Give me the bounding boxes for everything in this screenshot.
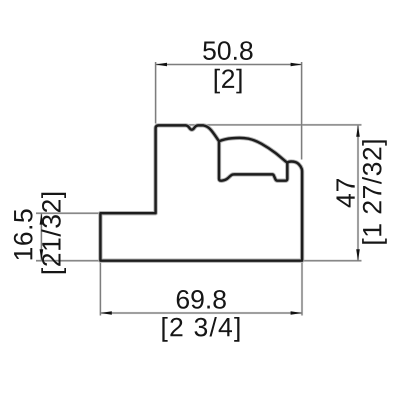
extension line: bottom dim right (301, 263, 303, 316)
dimension text: [2] (215, 69, 242, 94)
dimension text: 69.8 (177, 290, 226, 309)
arrowhead: right dim bottom (356, 249, 360, 260)
extension line: left dim bottom (36, 260, 100, 262)
arrowhead: right dim top (356, 125, 360, 136)
dimension line: 69.8 bottom (100, 312, 302, 314)
arrowhead: bottom dim left (100, 311, 111, 315)
arrowhead: top dim right (291, 63, 302, 67)
arrowhead: left dim bottom (40, 249, 44, 260)
soft halo under profile (100, 125, 302, 260)
extension line: top dim right (300, 62, 302, 160)
extension line: left dim bottom (36, 260, 100, 262)
dimension text: 50.8 (203, 41, 252, 60)
soft halo under thin lines (36, 62, 362, 316)
extension line: right dim bottom (304, 260, 362, 262)
dimension line: 47 right (357, 125, 359, 260)
extension line: bottom dim left (99, 263, 101, 316)
dimension text: [21/32] (rotated) (41, 193, 66, 274)
extension line: right dim top (156, 124, 362, 126)
extension line: right dim bottom (304, 260, 362, 262)
extension line: left dim top (36, 212, 100, 214)
extension line: right dim top (156, 124, 362, 126)
extension line: top dim left (154, 62, 156, 124)
extension line: bottom dim right (301, 263, 303, 316)
dimension line: 16.5 left (40, 213, 42, 261)
dimension line: 16.5 left (40, 213, 42, 261)
dimension line: 50.8 top (156, 64, 302, 66)
extension line: bottom dim left (99, 263, 101, 316)
arrowhead: left dim top (40, 213, 44, 224)
dimension text: 16.5 (rotated) (14, 209, 33, 259)
dimension text: 47 (rotated) (336, 179, 354, 207)
extension line: top dim right (301, 62, 303, 160)
extension line: top dim left (155, 62, 157, 124)
dimension line: 69.8 bottom (100, 312, 302, 314)
arrowhead: top dim left (156, 63, 167, 67)
dimension line: 50.8 top (156, 63, 302, 65)
arrowhead: bottom dim right (291, 311, 302, 315)
dimension line: 47 right (357, 125, 359, 260)
moulding profile outline (100, 125, 302, 260)
extension line: left dim top (36, 212, 100, 214)
decorative cap arc (219, 138, 287, 163)
dimension text: [2 3/4] (162, 317, 239, 342)
dimension text: [1 27/32] (rotated) (362, 140, 387, 243)
